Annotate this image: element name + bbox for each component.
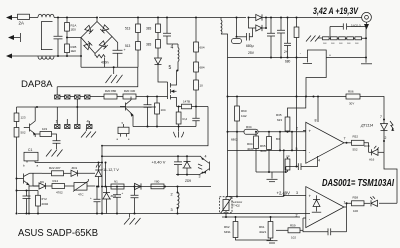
wire opamp out: [344, 142, 352, 144]
resistor R05: [268, 132, 270, 137]
resistor R13: [16, 122, 18, 128]
resistor R25: [36, 195, 41, 206]
SECTION: secondary: [221, 6, 372, 96]
node dot neg rail: [113, 66, 115, 68]
wire bridge top stub: [96, 18, 98, 22]
wire lowmid bus y186.5: [102, 186, 211, 188]
svg-text:NT 4Ω2: NT 4Ω2: [232, 205, 241, 208]
svg-text:47C: 47C: [78, 193, 84, 197]
diode D08: [369, 151, 372, 153]
svg-text:6802: 6802: [231, 138, 238, 142]
transformer T1 primary winding: [221, 18, 222, 35]
svg-text:2+: 2+: [284, 50, 288, 54]
IC pad row1 p5: [85, 95, 90, 99]
svg-text:Y80: Y80: [154, 180, 160, 184]
svg-text:8: 8: [315, 119, 317, 123]
capacitor C30 snubber: [247, 33, 250, 41]
SECTION: primary: [14, 17, 227, 157]
svg-text:7: 7: [344, 137, 346, 141]
ground lowmid: [124, 214, 141, 225]
svg-text:2A: 2A: [19, 21, 24, 26]
resistor R42: [151, 184, 164, 189]
node dot 383 top: [157, 17, 159, 19]
diode D7 rect bottom: [249, 18, 267, 32]
svg-text:4Ω21: 4Ω21: [259, 230, 267, 234]
svg-text:104: 104: [161, 108, 166, 112]
ground source claw: [174, 127, 184, 138]
resistor R60: [236, 97, 238, 107]
zener ZD2: [102, 187, 111, 214]
output cable shield bar: [361, 63, 372, 65]
capacitor C44: [96, 187, 98, 214]
AC plug arrow N: [6, 54, 12, 59]
svg-text:6Y2: 6Y2: [42, 197, 48, 201]
verticals to opamp: [280, 132, 292, 151]
svg-text:R58: R58: [353, 196, 359, 200]
zener ZD9: [183, 156, 192, 174]
svg-text:+: +: [309, 129, 312, 134]
choke L1 top winding: [38, 14, 54, 17]
svg-text:R52: R52: [353, 135, 359, 139]
transformer T1 aux winding: [178, 44, 179, 62]
ground br: [267, 240, 278, 242]
transistor Q2: [126, 97, 134, 127]
svg-text:2: 2: [171, 193, 173, 197]
svg-text:400n: 400n: [101, 61, 109, 65]
op-amp U1A: [306, 122, 344, 163]
resistor R52: [352, 140, 365, 145]
resistor R2 513 upper: [137, 18, 139, 25]
svg-text:DAP8A: DAP8A: [21, 79, 53, 89]
resistor R41: [111, 184, 124, 189]
svg-text:680μ: 680μ: [246, 44, 254, 48]
svg-text:2: 2: [296, 127, 298, 131]
diode D2: [100, 25, 108, 33]
ferrite bead FB1: [323, 37, 330, 40]
wire cap column: [296, 58, 298, 167]
svg-text:ДT1114: ДT1114: [360, 124, 373, 128]
svg-text:5: 5: [296, 147, 298, 151]
svg-text:+: +: [329, 54, 331, 58]
opto LED column: [98, 163, 100, 171]
svg-text:DAS001= TSM103AI: DAS001= TSM103AI: [322, 178, 395, 189]
wire y172: [256, 171, 286, 173]
capacitor C36: [298, 163, 301, 170]
resistor R31: [296, 18, 298, 28]
svg-text:383: 383: [146, 27, 152, 31]
varistor RV1: [74, 183, 87, 191]
wire winding to drain: [177, 62, 179, 71]
wire x283.8 down: [283, 150, 285, 195]
svg-text:4: 4: [205, 155, 207, 159]
svg-text:604: 604: [200, 46, 205, 50]
resistor R04: [255, 132, 257, 136]
SECTION: bottomright: [220, 191, 304, 244]
capacitor C4: [53, 141, 61, 149]
wire AC line bottom: [11, 55, 81, 57]
svg-text:5,6Ω2,Ω: 5,6Ω2,Ω: [351, 24, 361, 28]
pad row1 stubs: [57, 87, 77, 107]
svg-text:+: +: [122, 191, 124, 195]
resistor R62: [235, 217, 237, 222]
svg-text:30Y: 30Y: [349, 102, 354, 106]
transistor Q3: [24, 107, 35, 137]
thermistor NTC2: [226, 197, 228, 200]
diode D6 rect top: [249, 17, 256, 19]
svg-text:2: 2: [385, 136, 387, 140]
capacitor C40: [177, 156, 179, 174]
ferrite bead FB3: [339, 37, 346, 40]
connector jack inner: [365, 15, 369, 19]
svg-text:383: 383: [146, 43, 152, 47]
svg-text:R35: R35: [276, 113, 282, 117]
wire IC bus: [17, 106, 157, 108]
svg-text:+0,40 V: +0,40 V: [152, 160, 166, 165]
fuse F1 2A: [18, 14, 30, 19]
wire emitter bus: [133, 126, 196, 128]
capacitor C5 aux: [195, 107, 197, 127]
svg-text:+: +: [90, 196, 92, 200]
wire bridge frame: [81, 22, 112, 54]
svg-text:R06: R06: [348, 90, 354, 94]
node dot 513 top: [137, 17, 139, 19]
IC pad row1 p6: [75, 95, 80, 99]
svg-text:+: +: [309, 193, 312, 198]
resistor R3 513 lower: [137, 33, 139, 42]
wire q4 row: [30, 173, 43, 186]
svg-text:100: 100: [353, 209, 358, 213]
IC pad row1 p8: [55, 95, 60, 99]
op-amp U1B input wires: [284, 195, 306, 218]
wire source row: [177, 107, 182, 113]
ferrite bead FB2: [331, 37, 338, 40]
node dot snub: [236, 17, 238, 19]
wire jack down: [365, 27, 367, 63]
svg-text:10: 10: [200, 84, 204, 88]
svg-text:4: 4: [318, 159, 320, 163]
connector jack pin arrow: [366, 22, 368, 25]
wire output top rail: [266, 17, 362, 19]
diode D5 clamp: [155, 58, 162, 78]
ferrite bead FB5: [355, 37, 362, 40]
capacitor C33 shunt: [307, 59, 309, 63]
resistor R59: [276, 229, 288, 231]
resistor R4 383 upper: [157, 18, 159, 25]
svg-text:103: 103: [42, 127, 47, 131]
capacitor C32: [280, 18, 282, 58]
svg-text:5: 5: [169, 65, 172, 71]
wire bus y217: [222, 216, 300, 218]
svg-text:ASUS SADP-65KB: ASUS SADP-65KB: [18, 228, 98, 239]
wire pad row1: [60, 96, 85, 98]
wire fb cap: [303, 203, 347, 232]
wire R1 mid to bridge: [67, 37, 81, 39]
svg-text:R14: R14: [53, 179, 59, 183]
capacitor C42: [134, 187, 136, 214]
svg-text:R20 330: R20 330: [124, 89, 136, 93]
svg-text:+: +: [124, 48, 126, 52]
svg-text:4702: 4702: [56, 191, 63, 195]
wire secondary gnd rail: [228, 57, 308, 59]
wire secondary top: [221, 17, 246, 19]
node dot bridge top: [96, 17, 98, 19]
AC plug arrow PE: [13, 37, 20, 39]
svg-text:1Ω2: 1Ω2: [241, 114, 247, 118]
svg-text:R60: R60: [241, 109, 247, 113]
node dot R1 bottom: [66, 55, 68, 57]
wire left column: [16, 137, 18, 214]
svg-text:R04: R04: [247, 142, 253, 146]
svg-text:1: 1: [344, 201, 346, 205]
wire q4 base row: [17, 191, 39, 197]
op-amp U1B: [306, 187, 344, 228]
svg-text:C1: C1: [28, 148, 32, 152]
choke L1 bottom winding: [38, 56, 54, 59]
component X1: [118, 127, 129, 133]
resistor R9 104: [156, 97, 158, 104]
resistor R8 startup3: [195, 72, 197, 80]
IC pad row2 p4: [87, 125, 92, 129]
svg-text:R61: R61: [259, 225, 265, 229]
SECTION: feedback: [227, 58, 398, 236]
ground earth primary: [106, 67, 123, 83]
svg-text:R22 20Y: R22 20Y: [49, 166, 61, 170]
svg-text:ZD9: ZD9: [185, 179, 191, 183]
resistor R5 383 lower: [157, 33, 159, 40]
resistor R11 147B: [182, 104, 192, 109]
wire sense bus y97: [228, 97, 385, 120]
current shunt bold: [308, 50, 327, 59]
op-amp U1A pin4: [301, 156, 318, 167]
wire beads: [329, 37, 366, 39]
zener ZREF: [313, 195, 320, 211]
resistor R1A: [66, 18, 68, 23]
resistor R7 684 startup2: [195, 52, 197, 62]
node dot top CX: [57, 17, 59, 19]
node B3: [296, 166, 298, 168]
diode D30: [370, 202, 373, 204]
wire aux drop: [105, 163, 107, 187]
resistor R10 sense: [176, 112, 181, 124]
optocoupler U3 phototransistor: [203, 159, 210, 173]
svg-text:513: 513: [125, 44, 131, 48]
svg-text:1E0: 1E0: [71, 28, 77, 32]
svg-text:4021: 4021: [260, 149, 267, 153]
node dot R1 top: [66, 17, 68, 19]
svg-text:623: 623: [277, 118, 282, 122]
gate wire: [90, 96, 104, 98]
capacitor C3 gate: [147, 97, 149, 127]
wire 2v49 bus: [228, 196, 284, 198]
node dot R1 mid: [66, 37, 68, 39]
svg-text:3: 3: [296, 191, 298, 195]
svg-text:R62: R62: [224, 225, 230, 229]
box C1: [24, 152, 38, 161]
wire clamp diode to gate: [158, 78, 168, 82]
resistor R1B: [66, 31, 68, 44]
node dot pin5: [176, 70, 178, 72]
svg-text:3: 3: [171, 208, 173, 212]
pad row2 stubs: [57, 107, 89, 125]
svg-text:6491: 6491: [224, 230, 231, 234]
SECTION: AC input: [6, 14, 221, 59]
wire cap to beads: [329, 27, 331, 37]
resistor R61: [270, 217, 272, 222]
ground IC: [46, 150, 63, 157]
wire minus bus y150.4: [228, 149, 306, 151]
op-amp U1A input wires: [303, 131, 306, 151]
svg-text:552: 552: [353, 148, 358, 152]
capacitor C34 series: [330, 26, 366, 28]
wire upper r22: [42, 172, 52, 174]
svg-text:N1: N1: [114, 180, 118, 184]
diode D3: [84, 41, 92, 49]
svg-text:R20 880: R20 880: [105, 89, 117, 93]
svg-text:513: 513: [125, 27, 131, 31]
svg-text:3: 3: [199, 175, 201, 179]
resistor R24: [52, 184, 65, 189]
wire aux short: [176, 173, 203, 175]
wire bridge bottom stub: [94, 54, 96, 56]
IC pad row2 p2: [65, 125, 70, 129]
ferrite bead FB4: [347, 37, 354, 40]
svg-text:R34: R34: [246, 125, 252, 129]
svg-text:R59: R59: [290, 224, 296, 228]
wire neg rail to IC: [57, 67, 138, 87]
wire AC line top: [11, 17, 221, 19]
wire shunt out: [326, 57, 366, 59]
resistor R36: [287, 157, 289, 159]
wire LED loop: [379, 152, 397, 203]
svg-text:1E0: 1E0: [71, 49, 77, 53]
resistor R14 103: [35, 133, 40, 135]
svg-text:123: 123: [21, 116, 26, 120]
wire bottom bus: [18, 213, 310, 215]
svg-text:D08: D08: [364, 144, 370, 148]
wire return left drop: [101, 146, 103, 214]
ground earth secondary: [306, 36, 322, 42]
capacitor C1 bulk: [117, 53, 119, 67]
resistor R35 623: [288, 97, 306, 118]
IC pad row1 p7: [65, 95, 70, 99]
svg-text:ΩP: ΩP: [286, 155, 290, 159]
wire 0p4 left: [35, 162, 102, 164]
diode D40: [135, 183, 142, 189]
svg-text:102: 102: [291, 236, 296, 240]
wire fb bus y131.8: [228, 131, 306, 133]
wire opamp2 out: [344, 203, 352, 207]
IC pad row2 p1: [55, 125, 60, 129]
svg-text:A16: A16: [369, 158, 375, 162]
transistor Q4: [17, 173, 30, 213]
svg-text:502: 502: [21, 131, 26, 135]
thermistor NTC: [96, 55, 106, 68]
SECTION: bottomleft: [16, 137, 102, 239]
resistor R34: [244, 129, 258, 134]
resistor R12 123: [16, 107, 18, 113]
resistor R06: [346, 94, 360, 99]
wire shunt sense loop: [306, 59, 326, 97]
capacitor CX across line: [57, 18, 59, 57]
resistor R22: [52, 171, 64, 176]
IC pad row2 p3: [75, 125, 80, 129]
wire primary to secondary gnd: [221, 34, 228, 58]
svg-text:B3: B3: [276, 137, 280, 141]
resistor R20 880: [104, 94, 117, 99]
svg-text:2002: 2002: [42, 202, 49, 206]
wire left vertex down: [80, 38, 82, 68]
wire x228 down: [227, 58, 229, 197]
svg-text:+2,49V: +2,49V: [277, 191, 291, 196]
svg-text:147B: 147B: [183, 100, 190, 104]
capacitor C43: [26, 199, 28, 214]
svg-text:25V: 25V: [248, 51, 255, 55]
wire bottom rail: [81, 66, 138, 68]
capacitor C31 680u: [270, 18, 272, 58]
svg-text:R,d: R,d: [183, 117, 188, 121]
capacitor C41: [116, 187, 118, 214]
AC plug arrow L: [6, 15, 12, 20]
wire 0p4 bus: [102, 156, 203, 158]
svg-text:R65: R65: [260, 144, 266, 148]
capacitor C2 clamp: [167, 18, 178, 45]
svg-text:ZD1: ZD1: [72, 166, 78, 170]
connector jack outer: [362, 12, 372, 22]
resistor R21 330: [123, 94, 136, 99]
node dot bottom CX: [57, 55, 59, 57]
resistor R58: [352, 201, 365, 206]
svg-text:3,42 A +19,3V: 3,42 A +19,3V: [313, 6, 359, 16]
ground pad4: [81, 129, 96, 138]
LED flash arrow: [390, 121, 393, 129]
wire aux return: [102, 107, 208, 146]
svg-text:684: 684: [200, 66, 205, 70]
diode D4: [99, 41, 107, 49]
diode D1: [85, 25, 93, 33]
svg-text:4: 4: [171, 45, 174, 51]
svg-text:+11-12,7 V: +11-12,7 V: [101, 168, 119, 172]
svg-text:680: 680: [285, 60, 291, 64]
resistor R30 snubber: [236, 18, 238, 37]
capacitor C37 680: [287, 18, 289, 58]
PE pin bar: [20, 33, 22, 42]
ground bar: [271, 172, 273, 179]
U1A pin8 supply: [317, 97, 319, 123]
SECTION: bridge: [57, 17, 138, 87]
resistor R6 604 startup1: [195, 18, 197, 43]
SECTION: lowmid: [18, 146, 310, 225]
choke L1 core: [41, 22, 52, 50]
svg-text:7: 7: [380, 115, 382, 119]
MOSFET Q1: [165, 71, 177, 107]
